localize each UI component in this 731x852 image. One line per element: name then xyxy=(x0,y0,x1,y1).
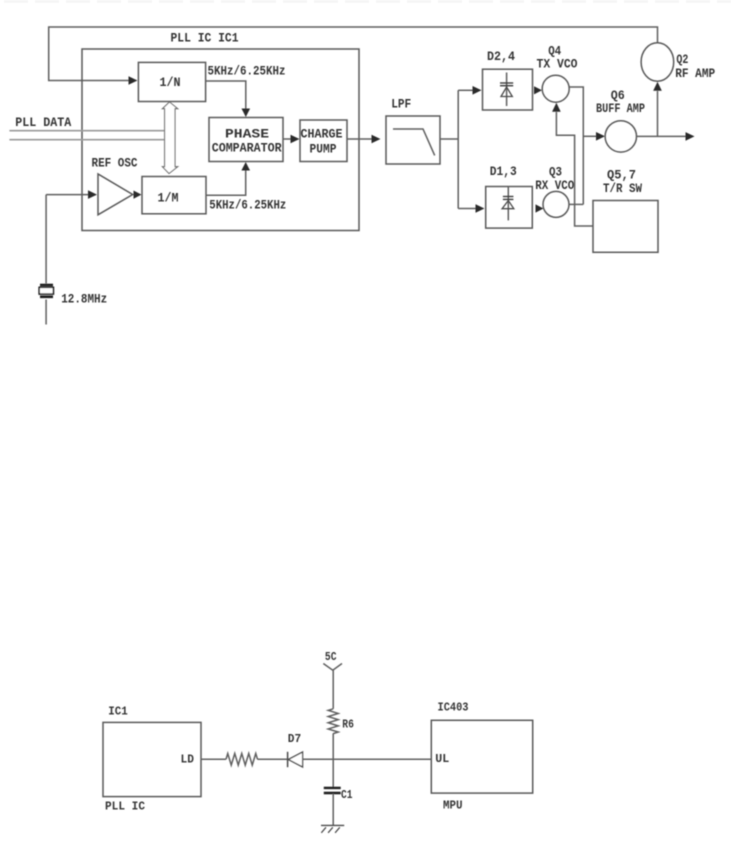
svg-text:COMPARATOR: COMPARATOR xyxy=(212,142,282,156)
svg-text:5KHz/6.25KHz: 5KHz/6.25KHz xyxy=(208,65,286,79)
svg-text:5C: 5C xyxy=(325,650,337,664)
svg-text:MPU: MPU xyxy=(443,799,463,813)
divider 1/N box xyxy=(138,62,205,101)
wire branch to D2,4 xyxy=(458,89,473,91)
svg-text:RX VCO: RX VCO xyxy=(535,179,574,193)
svg-text:Q6: Q6 xyxy=(611,89,625,103)
varactor symbol D1,3 xyxy=(502,187,514,221)
svg-text:D7: D7 xyxy=(288,732,301,746)
wire buffer amp output xyxy=(637,135,687,137)
crystal 12.8MHz xyxy=(39,285,53,297)
varactor symbol D2,4 xyxy=(500,73,513,107)
wire PLL DATA lower xyxy=(9,139,165,141)
transistor Q3 RX VCO circle xyxy=(543,191,569,217)
wire junction up to Q2 xyxy=(657,91,659,136)
varactor D1,3 box xyxy=(486,187,533,229)
LPF response curve xyxy=(393,129,435,155)
wire branch to D1,3 xyxy=(458,208,476,210)
wire 1/N output to phase comparator top xyxy=(206,81,246,110)
wire D7 to UL (through junction) xyxy=(303,758,432,760)
T/R switch Q5,7 box xyxy=(593,201,658,253)
charge pump box xyxy=(300,120,347,162)
svg-text:Q4: Q4 xyxy=(548,45,561,59)
wire C1 to ground xyxy=(332,794,334,826)
svg-text:PHASE: PHASE xyxy=(225,128,269,142)
diode D7 xyxy=(288,752,303,767)
svg-text:12.8MHz: 12.8MHz xyxy=(61,292,107,306)
svg-text:IC403: IC403 xyxy=(438,701,469,715)
op-amp REF OSC triangle xyxy=(98,174,133,215)
ground xyxy=(321,825,344,832)
svg-text:Q3: Q3 xyxy=(549,165,562,179)
svg-text:C1: C1 xyxy=(341,788,353,802)
wire feedback from Q2 output to 1/N input xyxy=(49,27,658,81)
divider 1/M box xyxy=(142,177,206,214)
svg-text:CHARGE: CHARGE xyxy=(301,128,343,142)
svg-text:PLL IC: PLL IC xyxy=(105,800,145,814)
svg-text:1/N: 1/N xyxy=(160,76,181,90)
varactor D2,4 box xyxy=(483,69,533,110)
wire Q3 output to common node xyxy=(569,203,583,205)
svg-text:LD: LD xyxy=(181,752,195,766)
IC403 MPU box xyxy=(431,720,532,793)
svg-text:D1,3: D1,3 xyxy=(490,165,517,179)
transistor Q4 TX VCO circle xyxy=(542,75,569,102)
svg-text:1/M: 1/M xyxy=(158,192,179,206)
PLL IC IC1 outer box xyxy=(82,49,359,231)
node crystal wire xyxy=(45,195,47,284)
svg-text:R6: R6 xyxy=(342,718,354,732)
svg-text:IC1: IC1 xyxy=(108,705,128,719)
wire crystal to REF OSC xyxy=(46,194,89,196)
hollow double arrow 1/N to 1/M xyxy=(162,102,177,174)
wire resistor to D7 xyxy=(258,758,288,760)
svg-text:Q2: Q2 xyxy=(676,53,688,67)
svg-text:PLL DATA: PLL DATA xyxy=(15,116,71,130)
wire LD to resistor xyxy=(201,758,226,760)
wire REF OSC to 1/M xyxy=(134,191,142,199)
svg-text:PLL IC IC1: PLL IC IC1 xyxy=(171,32,239,46)
wire below crystal xyxy=(45,300,47,325)
transistor Q2 RF AMP circle xyxy=(641,43,674,82)
wire D1,3 to Q3 xyxy=(536,204,544,212)
svg-text:LPF: LPF xyxy=(391,98,411,112)
wire common node to buffer amp input xyxy=(583,135,597,137)
svg-text:T/R SW: T/R SW xyxy=(603,182,642,196)
wire D2,4 to Q4 xyxy=(534,86,542,94)
svg-text:RF AMP: RF AMP xyxy=(675,67,715,81)
wire 5C to R6 xyxy=(332,670,334,709)
arrowhead into Q4 bottom xyxy=(552,103,561,112)
svg-text:REF OSC: REF OSC xyxy=(92,157,138,171)
phase comparator U xyxy=(209,118,283,162)
wire charge pump to LPF xyxy=(347,138,372,140)
wire PLL DATA upper xyxy=(9,130,165,132)
transistor Q6 BUFF AMP circle xyxy=(605,121,636,152)
svg-text:D2,4: D2,4 xyxy=(487,50,515,64)
svg-text:PUMP: PUMP xyxy=(310,143,337,157)
scan artifact top dashed line xyxy=(4,0,731,3)
wire Q4 output down to common node xyxy=(569,87,583,204)
IC1 PLL IC box xyxy=(103,722,201,796)
svg-text:BUFF AMP: BUFF AMP xyxy=(596,102,645,116)
wire LPF output to branch node xyxy=(440,138,458,140)
svg-text:TX VCO: TX VCO xyxy=(537,58,578,72)
resistor series (zigzag) xyxy=(226,754,258,766)
svg-text:5KHz/6.25KHz: 5KHz/6.25KHz xyxy=(209,198,286,212)
capacitor C1 xyxy=(324,788,341,793)
wire phase comparator to charge pump xyxy=(283,138,292,140)
wire R6 to junction xyxy=(332,733,334,787)
LPF box xyxy=(386,116,440,164)
wire 1/M output to phase comparator bottom xyxy=(206,170,246,195)
resistor R6 (vertical zigzag) xyxy=(328,709,338,734)
svg-text:UL: UL xyxy=(435,752,449,766)
wire branch vertical to varactors xyxy=(457,90,459,208)
wire T/R SW to control riser xyxy=(556,112,593,226)
svg-text:Q5,7: Q5,7 xyxy=(607,169,636,183)
